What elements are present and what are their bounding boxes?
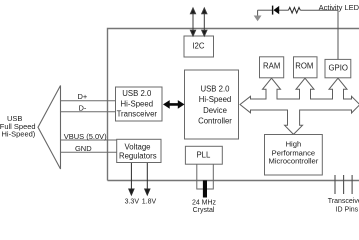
svg-text:Hi-Speed: Hi-Speed bbox=[199, 95, 232, 104]
svg-text:D+: D+ bbox=[78, 92, 88, 101]
svg-text:3.3V: 3.3V bbox=[125, 198, 140, 205]
svg-text:GPIO: GPIO bbox=[328, 64, 348, 73]
svg-text:GND: GND bbox=[75, 144, 92, 153]
svg-text:Crystal: Crystal bbox=[193, 207, 215, 214]
svg-text:ROM: ROM bbox=[295, 61, 313, 70]
svg-text:D-: D- bbox=[78, 103, 86, 112]
svg-text:I2C: I2C bbox=[192, 41, 205, 50]
svg-text:Controller: Controller bbox=[198, 117, 232, 126]
svg-text:Regulators: Regulators bbox=[119, 151, 157, 160]
svg-text:Hi-Speed): Hi-Speed) bbox=[2, 130, 36, 139]
svg-text:USB 2.0: USB 2.0 bbox=[200, 84, 230, 93]
svg-text:Microcontroller: Microcontroller bbox=[269, 157, 319, 166]
svg-text:Transceiver: Transceiver bbox=[328, 198, 359, 205]
svg-text:Device: Device bbox=[203, 106, 227, 115]
svg-text:PLL: PLL bbox=[196, 150, 211, 159]
svg-text:Voltage: Voltage bbox=[124, 142, 150, 151]
svg-text:Hi-Speed: Hi-Speed bbox=[121, 99, 154, 108]
svg-text:24 MHz: 24 MHz bbox=[192, 200, 217, 207]
svg-text:VBUS (5.0V): VBUS (5.0V) bbox=[64, 132, 107, 141]
svg-text:Activity LED: Activity LED bbox=[319, 3, 359, 12]
svg-text:USB 2.0: USB 2.0 bbox=[122, 89, 152, 98]
svg-text:RAM: RAM bbox=[263, 61, 280, 70]
svg-text:1.8V: 1.8V bbox=[142, 198, 157, 205]
svg-text:Transceiver: Transceiver bbox=[117, 110, 158, 119]
svg-text:ID Pins: ID Pins bbox=[336, 206, 359, 213]
